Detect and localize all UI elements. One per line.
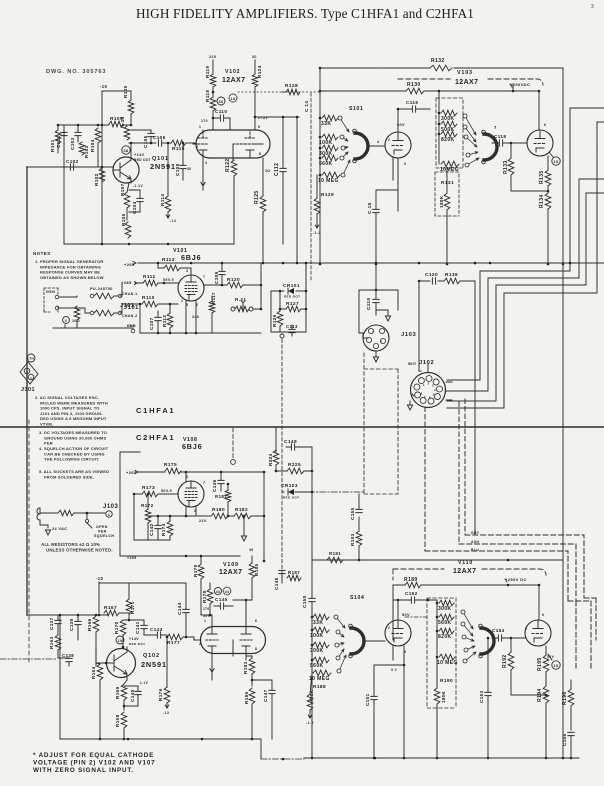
tube V102 internals left triode [193, 130, 209, 158]
wire bottom rail lower [304, 757, 579, 759]
resistor R109 [123, 85, 134, 126]
resistor 300K tap [319, 145, 338, 157]
capacitor C144 [129, 583, 189, 638]
resistor R169 [115, 680, 127, 710]
capacitor C153 [479, 637, 491, 760]
svg-text:C138: C138 [62, 653, 74, 658]
wire V110b plate supply [538, 585, 540, 620]
svg-text:43: 43 [216, 590, 221, 594]
svg-text:560K: 560K [319, 161, 333, 167]
svg-text:R135: R135 [539, 170, 545, 184]
svg-text:+14V: +14V [134, 153, 145, 157]
svg-text:4. SQUELCH ACTION OF CIRCUIT: 4. SQUELCH ACTION OF CIRCUIT [39, 446, 109, 451]
tube V103 second triode [527, 130, 553, 156]
resistor R196 [562, 680, 574, 730]
capacitor C118 [492, 134, 527, 146]
label J102 WHT [408, 360, 434, 366]
capacitor C148 dashed feed [274, 570, 285, 590]
svg-text:GEN: GEN [46, 290, 55, 294]
wire x264 column [263, 472, 265, 561]
capacitor C155 [350, 494, 362, 520]
dashed enclosure V110 [393, 569, 546, 580]
svg-text:C101: C101 [56, 135, 61, 148]
adjust note text [33, 752, 155, 774]
svg-text:R109: R109 [123, 85, 128, 98]
capacitor C107 [149, 311, 161, 333]
svg-text:R164: R164 [91, 666, 96, 679]
resistor R191 [327, 551, 343, 563]
svg-text:R193: R193 [350, 533, 355, 546]
resistor R182 [228, 507, 265, 519]
svg-text:180K: 180K [441, 690, 446, 703]
svg-text:12AX7: 12AX7 [455, 79, 478, 86]
svg-text:-1.1V: -1.1V [133, 184, 143, 188]
svg-text:Q102: Q102 [143, 653, 160, 659]
wire Q101 block top rail [58, 124, 131, 126]
wire right stack rail x439 [438, 91, 440, 164]
capacitor C108 [175, 142, 192, 180]
wire V108 plate top lead [185, 472, 187, 481]
resistor R180 [196, 507, 228, 519]
svg-text:C110: C110 [215, 109, 227, 114]
wire collector node to C106 [129, 142, 156, 144]
svg-text:R128: R128 [285, 83, 298, 89]
label V102 12AX7 [222, 69, 245, 84]
svg-text:50V.5: 50V.5 [161, 489, 172, 493]
svg-text:OPEN: OPEN [96, 525, 108, 529]
resistor R181 shunt [215, 483, 231, 518]
tube V102 stadium envelope [196, 130, 270, 158]
note1 gnd terminal [127, 324, 136, 333]
wire top supply rail [320, 67, 563, 69]
svg-text:-13: -13 [170, 219, 176, 223]
resistor R122 [225, 158, 237, 244]
svg-text:12AX7: 12AX7 [453, 568, 476, 575]
svg-text:C109: C109 [214, 271, 219, 284]
svg-text:4: 4 [377, 140, 379, 144]
capacitor C120 [425, 272, 438, 284]
note 3 text [39, 430, 107, 446]
label +14V red dot [134, 153, 151, 162]
wire left column x134 [134, 494, 148, 540]
notes heading [33, 251, 51, 256]
wire input to Q101 base [27, 166, 113, 168]
svg-text:5: 5 [433, 393, 435, 397]
wire V110a plate top [397, 600, 399, 620]
dashed joint y494 [364, 493, 398, 495]
svg-text:R194: R194 [537, 688, 543, 702]
resistor R127 [279, 301, 308, 312]
svg-text:CR103: CR103 [281, 483, 298, 489]
wire V103a cathode down [393, 158, 398, 211]
svg-text:+14V: +14V [129, 637, 139, 641]
svg-text:R175: R175 [164, 462, 177, 468]
note1 resistor chan2 [70, 308, 122, 316]
measurement dotted line to V103 box [238, 91, 320, 93]
capacitor C106 [153, 135, 171, 146]
resistor R131 180K [439, 168, 454, 265]
svg-text:180K: 180K [439, 195, 444, 208]
svg-text:R225: R225 [288, 462, 301, 468]
svg-text:C120: C120 [425, 272, 438, 278]
label V110 12AX7 [453, 560, 476, 575]
label V108 6BJ6 [182, 437, 202, 451]
capacitor C150 [302, 592, 315, 612]
svg-text:7: 7 [424, 395, 426, 399]
svg-text:NOTES: NOTES [33, 251, 51, 256]
wire node rail down to CR101 box [271, 263, 306, 332]
resistor R174 [161, 516, 173, 540]
svg-text:6: 6 [255, 619, 257, 623]
resistor 10MEG lower tap [309, 670, 331, 682]
svg-text:R196: R196 [562, 691, 568, 705]
wire V102 left grid to R115 [193, 143, 196, 145]
resistor R186 [244, 688, 255, 740]
svg-text:3Ω: 3Ω [265, 169, 270, 173]
svg-text:DED USING A 5 MEGOHM INPUT: DED USING A 5 MEGOHM INPUT [40, 416, 107, 421]
dashed cable J102 pin to ASH [458, 402, 460, 544]
wire R189 row [393, 584, 539, 586]
resistor R102 [94, 168, 105, 186]
svg-text:12AX7: 12AX7 [222, 77, 245, 84]
svg-text:2: 2 [388, 138, 390, 142]
svg-text:R125: R125 [254, 190, 260, 204]
resistor R194 [537, 686, 549, 759]
svg-text:44: 44 [225, 590, 230, 594]
capacitor C138 [58, 653, 74, 666]
resistor R193 [350, 517, 362, 560]
svg-text:R119: R119 [205, 66, 210, 78]
capacitor C146 [212, 472, 224, 492]
capacitor C151 [365, 664, 405, 760]
svg-text:R117: R117 [211, 292, 216, 304]
resistor R119 [205, 66, 216, 97]
svg-text:V: V [65, 319, 68, 323]
svg-text:FROM SOLDERED SIDE.: FROM SOLDERED SIDE. [44, 474, 94, 479]
resistor R115 [171, 140, 196, 152]
dashed heater drops right [568, 598, 596, 668]
svg-text:C155: C155 [350, 507, 355, 520]
dash-dot stub at x233 with terminal [232, 428, 234, 459]
svg-text:C2HFA1: C2HFA1 [136, 433, 175, 442]
svg-text:R127: R127 [286, 301, 299, 307]
dashed box right stack lower [427, 598, 456, 708]
wire solid box top y561 [312, 559, 562, 561]
capacitor C147 [251, 679, 276, 739]
resistor 820K lower right [438, 628, 454, 640]
svg-text:R168: R168 [115, 714, 120, 727]
label +265 lower [126, 470, 137, 475]
wire plate supply row [320, 90, 539, 92]
svg-text:X 2: X 2 [391, 668, 397, 672]
test point circled X [214, 587, 221, 594]
svg-text:33K: 33K [313, 620, 323, 626]
svg-text:2N591: 2N591 [141, 660, 167, 669]
svg-text:C141: C141 [135, 621, 140, 634]
svg-text:S101: S101 [349, 106, 364, 112]
svg-text:1. PROPER SIGNAL GENERATOR: 1. PROPER SIGNAL GENERATOR [35, 259, 103, 264]
wire V103b plate supply [538, 91, 540, 130]
svg-text:CHAN.1: CHAN.1 [122, 292, 137, 296]
dash-dot line from left edge [0, 658, 56, 660]
wire R224 column [275, 427, 277, 471]
svg-text:7: 7 [203, 481, 205, 485]
wire +265 supply rail [138, 262, 604, 264]
svg-text:-10: -10 [96, 576, 104, 581]
wire bus line A from right edge [447, 108, 604, 380]
wire bus line C from right edge [447, 179, 604, 391]
resistor 33K lower tap [313, 614, 329, 626]
dashed heater line ASH [459, 544, 576, 601]
svg-text:3: 3 [404, 162, 406, 166]
resistor R179 [193, 555, 204, 615]
resistor 500K right stack [441, 121, 457, 133]
wire J103 feed from rail [375, 263, 377, 290]
svg-text:560K: 560K [438, 620, 452, 626]
resistor R129 [313, 175, 334, 235]
svg-text:19: 19 [118, 639, 123, 643]
svg-text:36: 36 [249, 548, 254, 552]
svg-text:R120: R120 [227, 277, 240, 283]
svg-text:R111: R111 [143, 274, 156, 280]
svg-text:6: 6 [542, 613, 544, 617]
svg-text:J101 AND PIN 3, J103 GROUN-: J101 AND PIN 3, J103 GROUN- [40, 411, 103, 416]
svg-text:C1HFA1: C1HFA1 [136, 406, 175, 415]
svg-text:170: 170 [203, 607, 210, 611]
svg-text:C143: C143 [150, 627, 163, 632]
resistor R168 [115, 712, 127, 740]
wire J102 right leads staircase [446, 382, 455, 400]
svg-text:3: 3 [380, 340, 382, 344]
svg-text:+250V DC: +250V DC [505, 577, 527, 582]
svg-text:3: 3 [205, 161, 207, 165]
wire R119 feed +225 [212, 60, 214, 74]
test point circled 44 [223, 587, 231, 595]
resistor R190 180K [434, 657, 453, 759]
resistor R224 [268, 450, 279, 466]
svg-text:1: 1 [181, 299, 183, 303]
svg-text:R131: R131 [441, 180, 454, 186]
svg-text:C119: C119 [366, 298, 371, 310]
resistor R183 [243, 656, 255, 686]
capacitor C109 [214, 263, 225, 285]
svg-text:C150: C150 [302, 595, 307, 608]
svg-text:R112: R112 [162, 315, 167, 327]
svg-text:IMPEDANCE FOR OBTAINING: IMPEDANCE FOR OBTAINING [40, 264, 101, 269]
resistor 33K tap [321, 115, 338, 127]
resistor 10MEG lower right [437, 654, 458, 666]
rotary switch S104 section B [479, 624, 494, 658]
svg-text:30: 30 [187, 167, 192, 171]
note 4 text [39, 446, 109, 462]
switch S104B contacts [461, 610, 476, 663]
capacitor C102 in input line [66, 159, 79, 170]
rotary switch S101 [353, 129, 368, 163]
svg-text:6BJ6: 6BJ6 [181, 253, 201, 262]
channel divider line [0, 426, 604, 428]
test point circled 38 [122, 146, 130, 154]
resistor 300K right stack [441, 110, 457, 122]
svg-text:100K: 100K [319, 140, 333, 146]
svg-text:R113: R113 [162, 257, 175, 263]
wire CR101 row [271, 290, 306, 292]
wire Q102 bottom rail [60, 739, 261, 759]
capacitor C142 [149, 516, 161, 540]
label V109 12AX7 [219, 562, 242, 576]
svg-text:1: 1 [372, 330, 374, 334]
svg-text:J103: J103 [401, 332, 416, 338]
svg-text:-1.2: -1.2 [313, 231, 321, 235]
svg-text:2: 2 [199, 642, 201, 646]
svg-text:GROUND USING 20,000 OHMS: GROUND USING 20,000 OHMS [44, 435, 106, 440]
svg-text:7: 7 [203, 275, 205, 279]
svg-text:R132: R132 [431, 58, 445, 64]
resistor R173 [133, 485, 178, 497]
svg-text:V110: V110 [458, 560, 473, 566]
rotary switch S104 [349, 624, 364, 658]
wire S104 wiper to V110 grid [364, 640, 385, 642]
svg-text:1: 1 [204, 619, 206, 623]
svg-text:300K: 300K [438, 606, 452, 612]
svg-text:R188: R188 [313, 684, 326, 690]
svg-text:C149: C149 [284, 439, 297, 445]
svg-text:3: 3 [591, 4, 594, 10]
title text [136, 6, 474, 21]
tube V109 internals [206, 627, 252, 653]
resistor R164 [91, 663, 103, 739]
svg-text:1.1V: 1.1V [140, 681, 149, 685]
svg-text:2: 2 [26, 370, 28, 374]
resistor R125 [254, 158, 270, 263]
resistor R110 [132, 295, 178, 307]
svg-text:WHT: WHT [408, 362, 416, 366]
svg-text:+285: +285 [121, 280, 132, 285]
svg-text:RESPONSE CURVES MAY BE: RESPONSE CURVES MAY BE [40, 270, 100, 275]
wire Q102 supply vertical [98, 582, 100, 613]
drawing number label [46, 69, 106, 75]
svg-text:R133: R133 [503, 160, 509, 174]
wire V109 grid left from C143 [194, 639, 200, 641]
svg-text:6: 6 [429, 395, 431, 399]
svg-text:C151: C151 [365, 693, 370, 706]
resistor R195 [537, 646, 549, 686]
note all resistors text [41, 542, 113, 553]
svg-text:C102: C102 [66, 159, 79, 164]
svg-text:10Ω: 10Ω [72, 319, 80, 323]
resistor 560K lower tap [310, 657, 329, 669]
dashed heater line GRY [465, 535, 584, 598]
svg-text:UNLESS OTHERWISE NOTED.: UNLESS OTHERWISE NOTED. [46, 548, 113, 553]
tube V102 internals right triode [233, 130, 263, 158]
note1 sub-circuit generator box [44, 288, 58, 312]
capacitor C149 [284, 439, 300, 450]
connector J101 edge socket [20, 354, 38, 393]
svg-text:R178: R178 [202, 590, 207, 603]
svg-text:-10: -10 [100, 84, 108, 89]
svg-text:2: 2 [428, 382, 430, 386]
svg-text:R130: R130 [407, 82, 421, 88]
capacitor C110 [214, 109, 230, 130]
label V103 12AX7 with dashed enclosure [455, 70, 478, 86]
wire V103a plate top [397, 109, 399, 132]
svg-text:R183: R183 [243, 661, 248, 674]
ground arrow below J103 [373, 351, 378, 362]
resistor R136 [444, 272, 460, 284]
wire main right vertical bus [562, 68, 564, 758]
label C1HFA1 [136, 406, 175, 415]
svg-text:19: 19 [553, 160, 558, 164]
dashed heater line BLU [425, 551, 568, 601]
resistor R105 [109, 116, 123, 127]
resistor R189 [404, 577, 421, 588]
svg-text:170: 170 [201, 119, 208, 123]
wire x261 vertical [253, 263, 261, 309]
svg-text:R-38: R-38 [120, 116, 125, 128]
svg-text:J101: J101 [21, 387, 35, 393]
svg-text:GRN: GRN [28, 357, 35, 361]
capacitor C137 [49, 615, 61, 635]
resistor 300K lower right [438, 600, 454, 612]
note 5 text [39, 469, 109, 479]
svg-text:C104: C104 [132, 201, 137, 214]
svg-text:R114: R114 [160, 194, 165, 206]
wire R175 row [138, 471, 264, 473]
svg-text:BLU: BLU [471, 548, 479, 552]
wire J102 top lead [419, 364, 428, 372]
resistor R112 [162, 303, 173, 333]
wire J102 feed vertical [418, 281, 420, 371]
resistor R177 [167, 634, 194, 646]
dashed link x364 [363, 353, 365, 494]
svg-text:V103: V103 [457, 70, 473, 76]
svg-text:59V.5: 59V.5 [163, 278, 174, 282]
svg-text:R167: R167 [104, 605, 117, 611]
resistor R225 [275, 462, 312, 474]
svg-text:C144: C144 [177, 602, 182, 615]
svg-text:R103: R103 [84, 145, 89, 158]
svg-text:R180: R180 [212, 507, 225, 513]
svg-text:C112: C112 [274, 163, 280, 176]
svg-text:8: 8 [421, 391, 423, 395]
svg-text:THE FOLLOWING CIRCUIT.: THE FOLLOWING CIRCUIT. [44, 457, 99, 462]
tube V110 second triode [525, 620, 551, 646]
note1 resistor chan1 [90, 287, 122, 299]
label +285 [121, 280, 132, 285]
svg-text:C 15: C 15 [367, 202, 373, 214]
svg-text:C152: C152 [405, 591, 418, 596]
svg-text:R129: R129 [321, 192, 334, 198]
wire V108 lower rail [141, 555, 240, 557]
svg-text:R176: R176 [158, 688, 163, 701]
svg-text:3: 3 [186, 475, 188, 479]
wire input bus from J101 left edge [26, 167, 28, 615]
test point circled 19 [552, 157, 560, 165]
connector J102 socket [411, 373, 446, 408]
test point circled 46 [217, 97, 225, 105]
note1 sub-circuit wires [53, 295, 133, 328]
svg-text:PU-249750: PU-249750 [90, 287, 113, 291]
label C2HFA1 [136, 433, 175, 442]
resistor R166 [87, 616, 99, 666]
diode CR103 [281, 483, 312, 500]
svg-text:V109: V109 [223, 562, 239, 568]
capacitor C140 [124, 681, 149, 706]
switch S104 contacts [334, 615, 346, 673]
svg-text:CAN BE CHECKED BY USING: CAN BE CHECKED BY USING [44, 451, 105, 456]
svg-text:R106: R106 [121, 213, 126, 226]
svg-text:R118: R118 [205, 90, 210, 102]
resistor R101 [50, 125, 61, 153]
